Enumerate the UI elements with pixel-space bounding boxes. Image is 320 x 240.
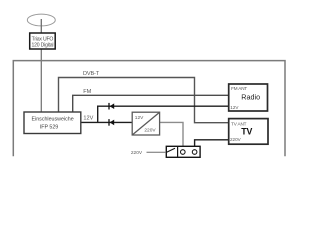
wire 12V branch: junction up and right to radio 12V: [98, 106, 229, 122]
svg-text:12V: 12V: [83, 115, 93, 121]
svg-text:Triax UFO: Triax UFO: [32, 36, 54, 42]
svg-text:Radio: Radio: [241, 92, 260, 101]
svg-text:220V: 220V: [230, 137, 242, 142]
svg-text:FM ANT: FM ANT: [231, 86, 247, 91]
wire mains: power supply to socket: [160, 122, 183, 147]
wire antenna downlead: [40, 48, 42, 113]
multiswitch box Einschleusweiche IFP 529: [24, 112, 81, 134]
power supply box 12V/220V: [132, 112, 159, 135]
antenna unit box Triax UFO 120 Digital: [30, 33, 56, 49]
leader line 220V label to socket: [147, 151, 167, 153]
diode D1 (top 12V line): [109, 103, 114, 110]
wire FM: switch top, up, right to FM ANT: [73, 95, 229, 112]
svg-text:DVB-T: DVB-T: [83, 71, 100, 77]
svg-text:FM: FM: [83, 89, 91, 95]
svg-text:220V: 220V: [144, 128, 156, 134]
svg-text:120 Digital: 120 Digital: [31, 43, 53, 49]
radio receiver box: [229, 84, 268, 111]
wire antenna mast: [40, 19, 42, 34]
svg-text:TV: TV: [241, 127, 252, 137]
wire 12V feed: switch right to power supply: [81, 121, 133, 123]
TV set box: [229, 119, 268, 145]
svg-text:Einschleusweiche: Einschleusweiche: [32, 117, 74, 123]
svg-text:220V: 220V: [131, 150, 143, 156]
svg-text:IFP 529: IFP 529: [40, 124, 59, 130]
antenna dish (ellipse): [27, 14, 55, 26]
socket unit (switch + outlet): [166, 146, 200, 157]
diode D2 (bottom 12V line): [109, 119, 114, 126]
svg-text:12V: 12V: [230, 105, 239, 110]
wire DVB-T: switch top, up, right, down, to TV ANT: [59, 78, 229, 123]
wire mains: socket to TV 220V: [195, 140, 229, 147]
caravan outline frame: [13, 61, 285, 157]
svg-text:12V: 12V: [135, 115, 144, 121]
